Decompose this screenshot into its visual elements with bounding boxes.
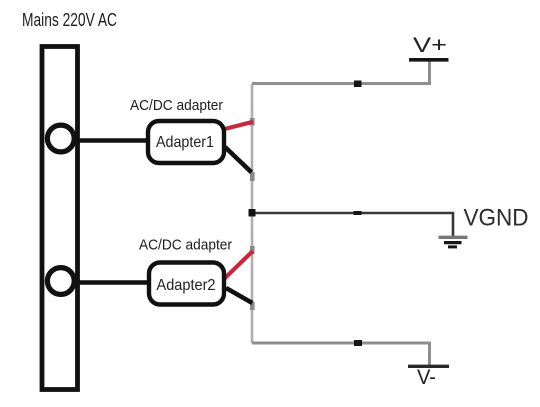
adapter U2 box Adapter2 (149, 263, 224, 305)
svg-text:V-: V- (417, 366, 436, 389)
ground symbol (439, 237, 468, 247)
svg-text:Mains 220V AC: Mains 220V AC (22, 10, 117, 30)
junction on V- rail (354, 340, 362, 346)
V- terminal bar (408, 365, 449, 368)
power strip (mains outlet bar) (42, 47, 78, 390)
svg-text:Adapter1: Adapter1 (156, 134, 214, 151)
svg-text:AC/DC adapter: AC/DC adapter (139, 237, 232, 254)
endpoint cap (bus / red2) (250, 246, 255, 254)
endpoint cap (bus / black2) (250, 302, 255, 310)
svg-text:V+: V+ (413, 34, 447, 57)
socket circle 2 (47, 268, 74, 295)
junction square (bus to VGND tap) (249, 209, 256, 217)
endpoint cap (bus / black1) (250, 172, 255, 181)
svg-text:AC/DC adapter: AC/DC adapter (130, 97, 223, 114)
socket circle 1 (47, 125, 74, 152)
V+ terminal bar (409, 58, 449, 62)
VGND wire (252, 213, 453, 237)
black wire Adapter2 - output (226, 288, 252, 303)
V+ rail wire (252, 61, 430, 84)
V- rail wire (252, 343, 430, 366)
vertical bus wire (251, 84, 254, 343)
red wire Adapter2 + output (225, 251, 253, 279)
endpoint cap (bus / red1) (250, 118, 255, 126)
junction on V+ rail (354, 81, 362, 88)
wire socket2 to Adapter2 (70, 280, 150, 285)
wire socket1 to Adapter1 (70, 138, 150, 143)
adapter U1 box Adapter1 (148, 121, 224, 163)
black wire Adapter1 - output (225, 147, 252, 172)
red wire Adapter1 + output (223, 122, 254, 130)
svg-text:VGND: VGND (464, 205, 529, 232)
svg-text:Adapter2: Adapter2 (157, 277, 216, 294)
junction on VGND wire (354, 211, 362, 215)
